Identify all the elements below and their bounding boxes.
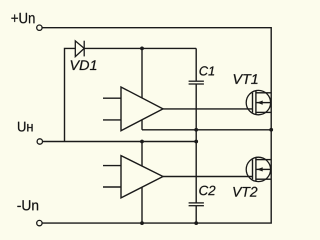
wire: upper amp input stub 1 [103, 97, 121, 99]
wire: gate wire lower (amp output to VT2 gate) [163, 176, 253, 178]
wire: boot line from left vertical to C1 (passes under VD1) [65, 48, 197, 141]
label VT2 [233, 187, 257, 197]
transistor VT1 body circle [246, 90, 270, 114]
label Uн [18, 122, 33, 132]
label VT1 [234, 74, 258, 84]
transistor VT1 internals: gate, channel, stubs, substrate arrow [253, 91, 272, 114]
label C1 [200, 66, 215, 75]
junction dot: Uн line / C2 vertical [194, 140, 198, 144]
wire: C1 top connection [195, 48, 197, 80]
junction dot: -Un rail / C2 vertical [194, 221, 198, 225]
wire: gate wire upper (amp output to VT1 gate) [163, 108, 253, 110]
wire: lower amp input stub 2 [103, 186, 121, 188]
wire: upper buffer positive supply pin (boot node to amp top) [141, 48, 143, 105]
label -Un [17, 200, 38, 210]
wire: C1 bottom to C2 top vertical [195, 84, 197, 202]
diode VD1 symbol [75, 41, 84, 57]
junction dot: -Un rail / lower buffer pin [140, 221, 144, 225]
label VD1 [71, 60, 97, 70]
terminal +Un [37, 25, 42, 30]
junction dot: switch line / C1 vertical [194, 128, 198, 132]
terminal -Un [37, 220, 42, 225]
wire: lower amp input stub 1 [103, 165, 121, 167]
junction dot: switch line / drain rail [269, 128, 273, 132]
transistor VT2 internals: gate, channel, stubs, substrate arrow [253, 158, 272, 181]
op-amp buffer DA2 (lower driver triangle) [121, 156, 163, 198]
wire: Uн line [43, 141, 197, 143]
label C2 [199, 186, 215, 196]
wire: lower buffer negative supply pin down to -Un rail [141, 181, 143, 223]
label +Un [11, 13, 34, 23]
terminal Uн [37, 139, 42, 144]
capacitor C2 plates [189, 203, 204, 206]
junction dot: boot line / upper buffer pin [140, 47, 144, 51]
op-amp buffer DA1 (upper driver triangle) [121, 87, 163, 131]
transistor VT2 body circle [246, 157, 270, 181]
wire: upper amp input stub 2 [103, 119, 121, 121]
wire: lower buffer positive supply pin (Uн node to amp top) [141, 142, 143, 173]
wire: +Un rail, right drain rail, -Un rail [42, 28, 271, 223]
junction dot: Uн line / lower buffer pin [140, 140, 144, 144]
wire: C2 bottom to -Un rail [195, 206, 197, 223]
capacitor C1 plates [189, 81, 204, 84]
wire: upper buffer negative supply pin down to switch line [141, 114, 143, 130]
wire: switch node line to rail [142, 129, 271, 131]
